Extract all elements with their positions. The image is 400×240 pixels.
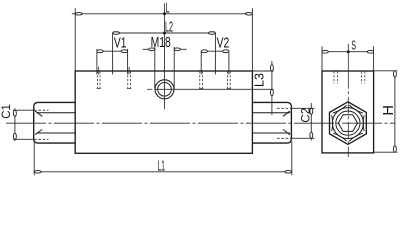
left hex flat edge upper	[36, 112, 75, 114]
svg-text:C2: C2	[300, 108, 312, 123]
dimension L2 extension line right	[214, 33, 216, 74]
svg-text:V2: V2	[217, 35, 230, 52]
hex nut flat chamfer arcs	[333, 105, 347, 113]
junction dot L2	[163, 32, 166, 35]
dimension M18 extension left	[154, 47, 156, 90]
dimension V2 line	[201, 50, 229, 52]
svg-text:L3: L3	[252, 73, 266, 87]
port M18 boss outer circle	[155, 80, 174, 99]
end view port hole right	[360, 71, 362, 83]
dimension V2 extension left	[200, 51, 202, 74]
dimension M18 line left segment	[143, 48, 155, 50]
right hex flat edge upper	[252, 112, 290, 114]
dimension S line	[322, 51, 374, 53]
right fitting thread hidden line lower	[277, 137, 291, 139]
end view vertical centerline upper	[347, 44, 349, 72]
hex nut outline (end view)	[330, 102, 367, 145]
dimension L1 line	[34, 171, 292, 173]
port V1b tapped hole (hidden)	[128, 67, 130, 75]
valve body block (main view)	[75, 71, 252, 153]
hex nut chamfer circle	[332, 108, 363, 139]
dimension H extension top	[374, 70, 397, 72]
svg-text:H: H	[381, 105, 397, 115]
end view plate	[322, 71, 374, 153]
hex end fitting right (plug)	[252, 102, 291, 143]
svg-text:C1: C1	[1, 104, 13, 119]
dimension V1 extension left	[96, 49, 98, 75]
dimension C1 extension bottom	[13, 138, 34, 140]
svg-text:L1: L1	[158, 158, 165, 175]
port M18 horizontal centerline / L3 extension	[147, 88, 152, 90]
port V2a tapped hole (hidden)	[199, 71, 201, 88]
dimension L2 extension line left	[112, 33, 114, 74]
port V1a tapped hole (hidden)	[98, 67, 100, 75]
thread circle	[336, 111, 360, 135]
dimension L2 line	[113, 32, 216, 34]
main axis centerline	[6, 122, 395, 124]
right hex flat edge lower	[252, 132, 290, 134]
dimension H extension bottom	[374, 151, 397, 153]
left fitting thread hidden line upper	[34, 109, 49, 111]
left fitting thread hidden line lower	[34, 138, 49, 140]
dimension L3 line	[271, 61, 273, 115]
port M18 inner circle	[158, 83, 172, 97]
end view vertical centerline	[347, 72, 349, 157]
left hex flat edge lower	[36, 132, 75, 134]
dimension L1 extension left	[33, 142, 35, 176]
dimension H line	[394, 71, 396, 152]
junction dot L	[163, 12, 166, 15]
svg-text:S: S	[351, 37, 356, 52]
end view port hole left	[333, 71, 335, 83]
svg-text:V1: V1	[114, 35, 127, 52]
dimension C2 extension bottom	[291, 137, 314, 139]
dimension V1 extension right	[127, 49, 129, 75]
dimension M18 extension right	[173, 47, 175, 90]
dimension L1 extension right	[291, 142, 293, 176]
dimension V1 line	[97, 50, 128, 52]
dimension L3 extension top	[252, 70, 273, 72]
dimension S extension left	[321, 46, 323, 71]
dimension C1 extension top	[13, 109, 34, 111]
svg-text:M18: M18	[151, 34, 171, 51]
dimension S extension right	[373, 46, 375, 71]
dimension C2 extension top	[291, 107, 314, 109]
hex end fitting left (plug)	[34, 102, 75, 143]
dimension L line	[72, 13, 253, 15]
port V2b tapped hole (hidden)	[227, 71, 229, 88]
right fitting thread hidden line upper	[277, 107, 291, 109]
dimension M18 line right segment	[174, 48, 187, 50]
svg-text:L: L	[166, 0, 170, 16]
internal hex socket	[338, 115, 357, 132]
dimension C2 line	[310, 103, 312, 141]
vertical centerline through M18 port	[164, 3, 166, 109]
dimension V2 extension right	[228, 51, 230, 74]
junction dot S	[347, 50, 350, 53]
dimension C1 line	[14, 108, 16, 141]
dimension L extension line right	[251, 8, 253, 71]
dimension L extension line left	[74, 8, 76, 71]
